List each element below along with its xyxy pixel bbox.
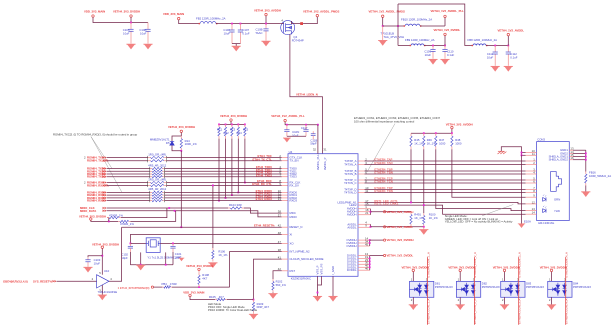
svg-text:4700R_1%: 4700R_1% <box>109 213 123 217</box>
svg-text:FDT434P: FDT434P <box>292 39 304 43</box>
svg-text:21: 21 <box>365 211 369 215</box>
callout lines from note <box>91 137 112 169</box>
wire R105 to junction <box>227 299 254 301</box>
wire RGMII4_TXD2 pack to chip pin <box>165 173 282 175</box>
junction D5/R14 rejoin <box>180 150 182 152</box>
wire net ETHER4_CON_3_A vertical <box>518 257 520 325</box>
junction XO crystal cap <box>172 243 174 245</box>
svg-text:VETH4_3V3_DVDDH: VETH4_3V3_DVDDH <box>168 125 195 129</box>
wire RGMII4_TX_CTL to resistor pack <box>107 160 148 162</box>
wire ETHER4_TBN to connector <box>365 173 526 175</box>
wire CLK125 strap <box>254 259 282 300</box>
resistor R104 33R <box>228 207 230 209</box>
svg-text:VDD_3V3_MAIN: VDD_3V3_MAIN <box>84 10 105 14</box>
wire RGMII4_RXC to resistor pack <box>107 182 148 184</box>
wire DVDDL flag down <box>444 36 446 46</box>
pin stub U4 ETH4_RXD0 <box>282 191 288 193</box>
resistor R103 4K7 (MDC pullup) <box>107 217 109 219</box>
wire ETHER4_TAN to connector <box>365 164 526 166</box>
svg-text:AVDDL: AVDDL <box>347 225 357 229</box>
svg-text:T4TXN_A: T4TXN_A <box>344 163 356 167</box>
ground below R106 <box>208 263 217 268</box>
wire INT net to U4 <box>230 252 282 288</box>
svg-text:1 ETH4_INT#/PWDN#(D): 1 ETH4_INT#/PWDN#(D) <box>118 286 150 290</box>
resistor R73 4.7K pullup <box>231 124 233 127</box>
junction R45 LED1 <box>410 202 412 204</box>
svg-text:ETHER4_TDN: ETHER4_TDN <box>374 189 392 193</box>
port RGMII4_RX_CTL <box>103 184 107 187</box>
ground below C112 <box>504 66 513 71</box>
svg-text:ETH4_RX_CTL: ETH4_RX_CTL <box>252 182 272 186</box>
wire D84 to ground <box>551 297 553 304</box>
junction CLK125 strap <box>253 299 255 301</box>
svg-text:VETH4_3V3_DVDDH: VETH4_3V3_DVDDH <box>448 265 475 269</box>
svg-text:46: 46 <box>365 267 369 271</box>
junction R73 on row <box>231 194 233 196</box>
wire Q4 source left <box>281 23 284 25</box>
svg-text:D5: D5 <box>166 141 170 145</box>
wire shield drain down to E10 ground <box>521 155 523 223</box>
ferrite FB16 shield to ground <box>585 172 587 175</box>
svg-text:56pF: 56pF <box>310 142 317 146</box>
ESD diode array D84 PRTR5V0U2X <box>548 281 572 297</box>
wire strap R106 from RX_CTL <box>212 185 214 248</box>
svg-text:PRTR5V0U2X: PRTR5V0U2X <box>482 285 500 289</box>
wire U10 vcc down <box>101 248 103 274</box>
wire LED1 net <box>365 202 526 204</box>
svg-text:ETHER4_TCN: ETHER4_TCN <box>374 180 392 184</box>
svg-text:T4TXN_B: T4TXN_B <box>344 172 356 176</box>
ground below D82 <box>456 305 465 310</box>
resistor R48 1000 <box>451 133 453 136</box>
wire AVDDH down <box>265 16 267 24</box>
junction pullup rail R74 <box>237 124 239 126</box>
pin stub U4 ETH4_RXC <box>282 182 288 184</box>
wire GND join vertical <box>585 150 587 171</box>
wire FB16 to ground <box>585 186 587 192</box>
wire R73 to bus row <box>231 139 233 196</box>
svg-text:ETHER4_TAN: ETHER4_TAN <box>374 161 392 165</box>
svg-text:C117: C117 <box>301 126 308 130</box>
capacitor C103 <box>87 257 89 260</box>
svg-text:R105__4K7: R105__4K7 <box>209 295 224 299</box>
small ground stub right of crystal <box>179 258 185 261</box>
svg-text:RX_DV: RX_DV <box>290 183 299 187</box>
wire VSS to ground <box>317 276 319 285</box>
wire RGMII4_RXD3 pack to chip pin <box>165 200 282 202</box>
wire RGMII4_RXD2 pack to chip pin <box>165 197 282 199</box>
junction pullup rail R71 <box>218 124 220 126</box>
wire MDC to chip <box>244 208 282 213</box>
wire R71 to bus row <box>218 139 220 201</box>
svg-text:ETHER4_CON_3_A: ETHER4_CON_3_A <box>518 299 522 324</box>
svg-text:YELLOW_LED: OFF = No activity: YELLOW_LED: OFF = No activity BLINKING =… <box>445 220 513 224</box>
svg-text:VETH4_3V3_DVDDH: VETH4_3V3_DVDDH <box>540 265 567 269</box>
resistor R102 560 <box>272 279 274 281</box>
junction rail R46 <box>423 132 425 134</box>
svg-text:U4: U4 <box>289 150 293 154</box>
wire D83 vcc <box>504 272 506 282</box>
wire R103 to MDC junction <box>121 208 167 218</box>
wire D82 vcc <box>459 272 461 282</box>
wire RGMII4_RXC pack to chip pin <box>167 182 282 184</box>
wire FB2 to Q4 <box>216 23 281 25</box>
svg-text:HRJ-3301NL: HRJ-3301NL <box>538 221 555 225</box>
port RGMII4_RXD2 <box>103 197 107 200</box>
wire D81 to ground <box>412 297 414 304</box>
svg-text:100R_50MHz_2A: 100R_50MHz_2A <box>589 174 611 178</box>
wire to R103 <box>107 218 109 222</box>
wire AVDDH bank rail <box>451 129 453 133</box>
wire AVDDL flag down <box>507 36 509 46</box>
junction C110 <box>444 45 446 47</box>
svg-text:TAA_4TV0_V0H: TAA_4TV0_V0H <box>384 35 404 39</box>
wire RGMII4_RXD0 to resistor pack <box>107 191 150 193</box>
svg-text:1000: 1000 <box>455 142 462 146</box>
port ETH4_INT <box>151 286 153 288</box>
wire crystal row right to U4 XO <box>160 242 282 244</box>
junction at riser x398 <box>397 25 399 27</box>
junction pullup split <box>108 221 110 223</box>
connector CON3 HRJ-3301NL (RJ45 magjack) <box>537 142 570 221</box>
wire R45 to LED1 row <box>410 149 412 202</box>
wire U4 XI to crystal riser <box>130 235 281 244</box>
ESD diode array D83 PRTR5V0U2X <box>501 281 525 297</box>
ground below D83 <box>500 305 509 310</box>
CON3 pin 12 stub <box>526 203 537 205</box>
svg-text:R104 33R: R104 33R <box>229 203 242 207</box>
svg-text:TAAC: TAAC <box>255 31 262 35</box>
port RGMII4_TXD1 <box>103 170 107 173</box>
capacitor C112 <box>507 46 509 53</box>
svg-text:VETH4_1V2_AVDDL_PMOS: VETH4_1V2_AVDDL_PMOS <box>303 9 339 13</box>
wire R74 to bus row <box>237 139 239 193</box>
CON3 internal LED GRN <box>543 195 547 202</box>
ground I_GND <box>328 296 337 301</box>
svg-text:AVDDL_PLL: AVDDL_PLL <box>316 154 320 170</box>
svg-text:1K_1%: 1K_1% <box>429 216 439 220</box>
junction R72 on row <box>225 197 227 199</box>
svg-text:10uF: 10uF <box>140 31 147 35</box>
capacitor C102 <box>129 243 131 246</box>
junction C109 <box>432 45 434 47</box>
pin stub U4 ETH4_RXD2 <box>282 197 288 199</box>
wire RGMII4_TXD2 to resistor pack <box>107 173 150 175</box>
svg-text:ETHER4_CON_1_A: ETHER4_CON_1_A <box>426 299 430 324</box>
wire net ETHER4_CON_2_A vertical <box>473 257 475 325</box>
wire RGMII4_TXD1 pack to chip pin <box>165 170 282 172</box>
svg-text:VETH4_1V2_AVDDL_PLL: VETH4_1V2_AVDDL_PLL <box>431 9 465 13</box>
capacitor C105 <box>130 23 132 30</box>
svg-text:MDIO_DATA: MDIO_DATA <box>80 209 96 213</box>
svg-text:1K_1%: 1K_1% <box>218 253 228 257</box>
wire R72 to bus row <box>225 139 227 198</box>
wire crystal row left <box>130 242 146 244</box>
svg-text:DVDDL: DVDDL <box>347 268 357 272</box>
capacitor C108b 10uF <box>286 125 288 130</box>
port SYS_RESET <box>53 280 57 283</box>
resistor R74 4.7K pullup <box>237 124 239 127</box>
junction PMOS rail <box>382 25 384 27</box>
wire AVDDL_PLL down <box>444 18 446 26</box>
svg-text:R75: R75 <box>243 128 249 132</box>
ground below C103 <box>83 267 92 272</box>
svg-text:10uF: 10uF <box>123 31 130 35</box>
junction R50 AVDDL <box>423 226 425 228</box>
svg-text:VETH4_3V3_AVDDH: VETH4_3V3_AVDDH <box>387 210 414 214</box>
svg-text:AVDDH: AVDDH <box>347 213 357 217</box>
svg-text:14: 14 <box>532 211 536 215</box>
ground below R109 <box>249 314 258 319</box>
svg-text:T4TXN_D: T4TXN_D <box>344 191 356 195</box>
svg-text:VETH4_3V3_AVDDH: VETH4_3V3_AVDDH <box>446 122 473 126</box>
svg-text:VETH4_LDEN_N: VETH4_LDEN_N <box>296 93 318 97</box>
svg-text:VDD_3V3_MAIN: VDD_3V3_MAIN <box>163 12 184 16</box>
wire R107 to MDIO junction <box>131 211 176 222</box>
wire CON3 SHIELA_GND1 to FB16 <box>573 156 586 158</box>
junction R108 on INT net <box>198 286 200 288</box>
junction at C107 <box>240 23 242 25</box>
port RGMII4_RXD3 <box>103 199 107 202</box>
wire Q4 gate net VETH4_LDEN_N <box>290 34 323 153</box>
svg-text:FB10 120R_100MHz_2A: FB10 120R_100MHz_2A <box>401 18 432 22</box>
ground below C105 <box>126 44 135 49</box>
RJ45 jack symbol inside CON3 <box>551 172 562 192</box>
svg-text:I_GND: I_GND <box>331 266 335 275</box>
pin stub U4 ETH4_RXD3 <box>282 200 288 202</box>
CON3 pin 10 stub <box>526 152 537 154</box>
svg-text:560_1%: 560_1% <box>276 283 287 287</box>
wire RGMII4_TXD0 to resistor pack <box>107 168 150 170</box>
svg-text:CLK125_NDO/LED_MODE: CLK125_NDO/LED_MODE <box>290 257 324 261</box>
svg-text:0.1uF: 0.1uF <box>510 56 517 60</box>
IC U4 KSZ9031RNX (Gigabit PHY) <box>288 154 358 277</box>
svg-text:OVDDH: OVDDH <box>346 244 356 248</box>
wire ETHER4_TDP to connector <box>365 189 526 191</box>
svg-text:R73: R73 <box>230 128 236 132</box>
capacitor C107 <box>239 24 241 30</box>
wire RST to R102 <box>273 271 282 279</box>
crystal Y1 25MHz <box>146 238 160 253</box>
wire RGMII4_TX_CTL pack to chip pin <box>167 160 282 162</box>
svg-text:T4TXN_C: T4TXN_C <box>344 181 356 185</box>
ground below C110 <box>440 59 449 64</box>
svg-text:PB4__470R: PB4__470R <box>162 282 177 286</box>
pin stub U4 ETH4_TX_CTL <box>282 160 288 162</box>
port RGMII4_RXD1 <box>103 194 107 197</box>
svg-text:32: 32 <box>313 147 317 151</box>
svg-text:4K7: 4K7 <box>202 277 207 281</box>
svg-text:RST1_LED_LINK1: RST1_LED_LINK1 <box>374 202 398 206</box>
wire AVDDL to port <box>371 226 424 228</box>
wire I_GND down <box>332 276 334 296</box>
ground below D84 <box>547 305 556 310</box>
wire CON3 GND2 to FB16 <box>573 152 586 154</box>
svg-text:SHIELA_GND2: SHIELA_GND2 <box>549 158 569 162</box>
wire DVDDL to port <box>370 255 384 257</box>
svg-text:VETH4_1V2_DVDDL: VETH4_1V2_DVDDL <box>387 254 414 258</box>
svg-text:4700R_1%: 4700R_1% <box>120 222 134 226</box>
svg-text:VETH4_1V2_DVDDL: VETH4_1V2_DVDDL <box>434 28 461 32</box>
wire LED2 net <box>365 205 526 214</box>
CON3 pin 3 stub <box>526 170 537 172</box>
wire crystal ground rail <box>130 264 173 266</box>
wire PMOS flag to drain <box>304 17 318 24</box>
svg-text:VETH4_3V3_DVDDH: VETH4_3V3_DVDDH <box>79 215 106 219</box>
svg-text:100K_1%: 100K_1% <box>185 142 198 146</box>
junction pullup rail R73 <box>231 124 233 126</box>
wire riser to top loop and row2 <box>397 4 399 46</box>
CON3 pin 2 stub <box>526 164 537 166</box>
svg-text:INT_N/PME_N2: INT_N/PME_N2 <box>290 250 310 254</box>
junction PLL riser <box>317 124 319 126</box>
node junction at C105 <box>130 22 132 24</box>
ground below C109 <box>428 59 437 64</box>
CON3 pin 1 stub <box>526 160 537 162</box>
wire RGMII4_TXD0 pack to chip pin <box>165 168 282 170</box>
junction U10 vcc <box>101 255 103 257</box>
wire ETHER4_TCN to connector <box>365 182 526 184</box>
callout from LED note <box>482 205 513 216</box>
wire diode to bottom <box>172 145 181 150</box>
wire MDIO row <box>107 211 282 217</box>
ground PLL caps <box>283 138 291 142</box>
svg-text:100 ohm differential impedance: 100 ohm differential impedance matching … <box>354 120 415 124</box>
transistor Q4 FDT434P (P-MOSFET) <box>281 21 295 35</box>
svg-text:10pF: 10pF <box>121 256 128 260</box>
junction PLL C117 <box>305 124 307 126</box>
svg-text:ETH4_TXD3: ETH4_TXD3 <box>256 173 272 177</box>
svg-text:10uF: 10uF <box>292 133 299 137</box>
wire OVDDH to port <box>370 239 384 241</box>
capacitor C117 <box>305 125 307 130</box>
pin stub U4 ETH4_RXD1 <box>282 194 288 196</box>
svg-text:SYS_RESET%: SYS_RESET% <box>33 279 52 283</box>
CON3 pin 4 stub <box>526 173 537 175</box>
wire PMOS rail to FB10 <box>383 25 405 27</box>
svg-text:ETH4_RESET%: ETH4_RESET% <box>254 223 275 227</box>
wire RGMII4_TXD1 to resistor pack <box>107 170 150 172</box>
wire D5 block top <box>180 133 182 137</box>
wire Q4 drain to PMOS rail <box>292 21 304 24</box>
svg-text:VETH4_3V3_DVDDH: VETH4_3V3_DVDDH <box>92 242 119 246</box>
wire top loop to FB8 column <box>398 4 473 46</box>
svg-text:VETH4_3V3_DVDDH: VETH4_3V3_DVDDH <box>493 265 520 269</box>
CON3 pin 14 stub <box>526 213 537 215</box>
CON3 pin 11 stub <box>526 154 537 156</box>
resistor network RN4 4R5_4R_2012 <box>150 191 152 193</box>
wire CON3 SHIELA_GND2 to FB16 <box>573 159 586 161</box>
capacitor C106a <box>147 23 149 30</box>
wire FB9 to caps <box>424 45 445 47</box>
pin stub U4 ETH4_TXC <box>282 157 288 159</box>
svg-text:MDIO: MDIO <box>290 215 298 219</box>
crystal ground pad loop <box>140 252 142 264</box>
port MDIO_CLK <box>103 207 107 210</box>
svg-text:RESET_N: RESET_N <box>290 225 303 229</box>
svg-text:RXD3: RXD3 <box>290 199 298 203</box>
svg-text:11: 11 <box>532 152 535 156</box>
svg-text:PRTR5V0U2X: PRTR5V0U2X <box>526 285 544 289</box>
svg-text:AVDDL_P: AVDDL_P <box>323 157 327 170</box>
svg-text:DNP_4K7: DNP_4K7 <box>257 305 270 309</box>
pin stub U4 ETH4_RX_CTL <box>282 184 288 186</box>
wire RGMII4_RXD0 pack to chip pin <box>165 191 282 193</box>
wire RGMII4_RXD2 to resistor pack <box>107 197 150 199</box>
junction pullup rail R72 <box>225 124 227 126</box>
wire shield to CON3 pins <box>522 152 526 154</box>
port RGMII4_RXC <box>103 181 107 184</box>
junction PLL C108b <box>286 124 288 126</box>
capacitor C109 <box>432 46 434 50</box>
resistor R107 4K7 (MDIO pullup) <box>118 220 120 222</box>
ground crystal caps <box>136 265 145 270</box>
wire RGMII4_RXD1 pack to chip pin <box>165 194 282 196</box>
port RGMII4_TXC <box>103 156 107 159</box>
svg-text:VETH4_3V3_DVDDH: VETH4_3V3_DVDDH <box>186 264 213 268</box>
svg-text:GBE4(M,P)/3,5,4,0): GBE4(M,P)/3,5,4,0) <box>3 279 28 283</box>
svg-text:TXD3: TXD3 <box>290 175 298 179</box>
wire PLL rail <box>285 122 318 125</box>
junction rail R48 <box>451 132 453 134</box>
wire RGMII4_RXD1 to resistor pack <box>107 194 150 196</box>
ground arrow below AVDDL <box>423 227 425 230</box>
wire to diode branch <box>172 136 181 141</box>
wire OVDDH join <box>369 240 371 246</box>
junction at C106 <box>231 23 233 25</box>
svg-text:1R0_OR_(4R): 1R0_OR_(4R) <box>148 177 166 181</box>
wire R75 to bus row <box>244 139 246 183</box>
capacitor C110 <box>444 46 446 50</box>
capacitor C108 <box>265 24 267 29</box>
svg-text:RGMII4_TXC[3..0] TO RGMII4_RXD: RGMII4_TXC[3..0] TO RGMII4_RXD[3..0] sho… <box>53 133 138 137</box>
junction gnd rail left <box>140 264 142 266</box>
diode D5 MMBZ9V1ALT1 <box>170 141 174 145</box>
capacitor C106 <box>231 24 233 30</box>
svg-text:R74: R74 <box>237 131 243 135</box>
callout line from impedance note <box>367 124 395 172</box>
wire AVDDL join <box>370 224 372 227</box>
port VETH4_3V3_DVDDH (OVDDH) <box>384 239 386 241</box>
CON3 pin 5 stub <box>526 179 537 181</box>
wire MDIO pullup feed <box>91 220 118 221</box>
wire to INT pin riser <box>172 286 230 288</box>
resistor network RN1 1R0_OR_(4R) <box>148 157 151 159</box>
svg-text:PD10 100KR: Tri Color Dual-LED: PD10 100KR: Tri Color Dual-LED Mode <box>208 308 258 312</box>
junction gnd rail right <box>165 264 167 266</box>
resistor network RN3 1R0_OR_(4R) <box>148 182 151 184</box>
svg-text:E10A: E10A <box>524 219 531 223</box>
junction C112 <box>507 45 509 47</box>
wire VETH4_3V3_DVDDH stub <box>130 17 132 22</box>
port VETH4_1V2_AVDDL <box>384 226 386 228</box>
svg-text:ETHER4_CON_4_A: ETHER4_CON_4_A <box>565 299 569 324</box>
wire RGMII4_RX_CTL to resistor pack <box>107 184 148 186</box>
svg-text:TX_EN: TX_EN <box>290 159 299 163</box>
wire PMOS flag down <box>382 17 384 26</box>
ground below C108 <box>261 41 270 46</box>
wire RGMII4_TXC pack to chip pin <box>167 157 282 159</box>
wire D83 to ground <box>504 297 506 304</box>
CON3 pin 9 stub <box>526 196 537 198</box>
svg-text:31: 31 <box>323 147 327 151</box>
svg-text:GRN: GRN <box>554 198 560 202</box>
wire strap feed <box>190 297 215 300</box>
svg-text:45: 45 <box>365 242 369 246</box>
svg-text:12: 12 <box>532 200 536 204</box>
resistor R75 4.7K pullup <box>244 124 246 127</box>
wire R14 bottom to ETH4_RESET row <box>180 151 182 227</box>
